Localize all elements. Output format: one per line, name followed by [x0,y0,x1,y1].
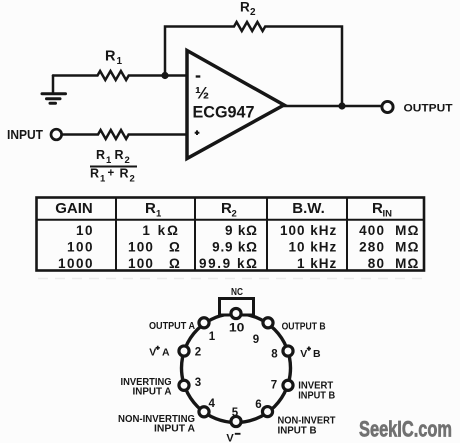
svg-text:2: 2 [130,174,135,185]
svg-text:R: R [240,0,250,15]
svg-text:INPUT A: INPUT A [154,423,195,435]
svg-text:R: R [90,167,99,181]
svg-text:INPUT B: INPUT B [278,425,317,437]
svg-text:OUTPUT B: OUTPUT B [282,321,326,333]
svg-text:NC: NC [231,287,243,298]
svg-text:R: R [221,200,232,217]
svg-text:OUTPUT A: OUTPUT A [149,320,195,332]
svg-text:INPUT: INPUT [7,128,43,142]
svg-text:ECG947: ECG947 [193,103,255,122]
svg-text:100 kHz: 100 kHz [280,223,337,238]
svg-text:3: 3 [195,377,201,389]
svg-text:280 MΩ: 280 MΩ [359,240,420,255]
svg-text:8: 8 [271,348,278,360]
svg-text:INPUT A: INPUT A [133,386,172,398]
svg-text:R: R [115,148,124,162]
svg-text:+: + [108,168,115,180]
svg-text:7: 7 [271,379,277,391]
svg-text:OUTPUT: OUTPUT [404,103,453,115]
svg-text:1: 1 [117,56,123,67]
svg-text:A: A [162,346,170,358]
svg-text:5: 5 [232,407,239,419]
svg-text:1 kHz: 1 kHz [297,256,337,271]
svg-text:B: B [313,348,321,360]
svg-text:10: 10 [229,322,245,334]
svg-text:10: 10 [76,223,94,238]
svg-text:400 MΩ: 400 MΩ [359,223,420,238]
svg-text:1000: 1000 [58,256,94,271]
svg-text:10 kHz: 10 kHz [289,240,338,255]
svg-text:SeekIC.com: SeekIC.com [359,417,452,442]
svg-text:9.9 kΩ: 9.9 kΩ [212,240,258,255]
svg-text:6: 6 [255,399,261,411]
svg-text:2: 2 [125,155,130,166]
svg-text:INPUT B: INPUT B [298,390,335,402]
svg-text:R: R [145,200,156,217]
svg-text:1: 1 [100,174,106,185]
svg-text:V: V [300,348,307,360]
svg-text:GAIN: GAIN [55,200,93,217]
svg-text:R: R [120,167,129,181]
svg-text:IN: IN [383,209,393,220]
svg-text:R: R [105,49,116,65]
svg-text:R: R [96,148,105,162]
svg-text:9: 9 [253,334,259,346]
svg-text:V: V [226,433,234,443]
svg-text:4: 4 [208,398,215,410]
svg-text:100 Ω: 100 Ω [128,240,181,255]
svg-text:2: 2 [195,347,201,359]
svg-text:2: 2 [232,209,237,220]
svg-text:99.9 kΩ: 99.9 kΩ [199,256,259,271]
svg-text:9 kΩ: 9 kΩ [225,223,258,238]
svg-text:1: 1 [106,155,112,166]
svg-text:1 kΩ: 1 kΩ [142,223,180,238]
svg-text:V: V [149,346,156,358]
svg-text:R: R [372,200,383,217]
svg-text:½: ½ [195,84,209,103]
svg-text:1: 1 [156,209,162,220]
svg-text:80 MΩ: 80 MΩ [368,256,420,271]
svg-text:100 Ω: 100 Ω [128,256,181,271]
svg-text:B.W.: B.W. [292,200,325,217]
svg-text:1: 1 [209,331,216,343]
svg-text:100: 100 [67,240,94,255]
svg-text:2: 2 [250,7,256,18]
